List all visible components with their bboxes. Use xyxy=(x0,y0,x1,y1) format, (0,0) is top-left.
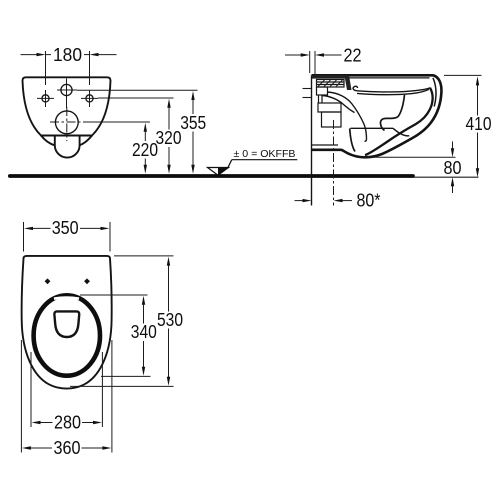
side view front rim inner edge xyxy=(433,78,436,107)
dimension 22 xyxy=(285,45,362,74)
seat ring (thick) xyxy=(34,295,100,375)
svg-text:350: 350 xyxy=(52,218,79,238)
dimension 350 xyxy=(24,218,111,252)
svg-text:320: 320 xyxy=(156,128,182,148)
svg-text:530: 530 xyxy=(157,310,183,330)
floor level label ± 0 = OKFFB xyxy=(232,149,297,160)
extension line 530 top xyxy=(114,255,174,257)
extension line 320 (from fixing holes) xyxy=(98,97,174,99)
extension line 80 upper xyxy=(364,156,456,158)
side view flush channel double curve xyxy=(322,92,367,141)
side view weir crest xyxy=(393,128,409,136)
side view flush distributor block xyxy=(312,80,345,146)
dimension 80 (right) xyxy=(444,142,462,194)
outlet circle xyxy=(55,111,78,134)
side view inner top line xyxy=(317,77,430,79)
outlet pipe vertical axis (dash-dot) xyxy=(333,120,335,206)
side view wall back line xyxy=(311,75,313,205)
front view bowl outline xyxy=(23,77,111,157)
extension line 220 (from outlet axis) xyxy=(86,121,150,123)
side view outer profile xyxy=(312,75,442,205)
seat hinge gap (white notch) xyxy=(54,298,79,299)
dimension 220 xyxy=(132,123,158,174)
svg-text:340: 340 xyxy=(131,322,157,342)
svg-text:± 0 = OKFFB: ± 0 = OKFFB xyxy=(234,149,296,160)
extension line 360 left xyxy=(20,340,22,453)
svg-text:80*: 80* xyxy=(357,191,381,211)
side view bowl cavity front wall xyxy=(380,95,404,131)
right fixing hole crosshair xyxy=(81,90,98,107)
rim spreader hook xyxy=(353,86,357,91)
extension line 530 bottom xyxy=(70,385,174,387)
dimension 320 xyxy=(156,99,182,174)
inlet circle crosshair xyxy=(57,79,77,109)
outlet circle axis cross xyxy=(50,107,86,141)
floor line (thick) xyxy=(10,174,413,178)
extension line 280 left xyxy=(30,352,32,427)
seat hinge hole right (diamond) xyxy=(84,278,90,284)
extension line 355 (from inlet) xyxy=(77,89,198,91)
plan view body outline xyxy=(22,256,112,389)
side view hatched rim back section xyxy=(312,75,352,90)
svg-text:410: 410 xyxy=(466,114,492,134)
extension line 410 top xyxy=(444,74,482,76)
dimension 340 xyxy=(131,296,157,376)
side view sump inner left wall xyxy=(350,128,355,151)
dimension 80* (bottom of side view) xyxy=(295,191,381,211)
dimension 180 xyxy=(21,45,117,85)
left fixing hole xyxy=(42,95,49,102)
seat hinge hole left (diamond) xyxy=(45,278,51,284)
dimension 280 xyxy=(32,413,103,433)
extension line 340 top xyxy=(80,294,148,296)
left fixing hole crosshair xyxy=(37,90,54,107)
svg-text:355: 355 xyxy=(180,113,206,133)
svg-text:180: 180 xyxy=(53,45,82,65)
dimension 410 xyxy=(466,76,492,177)
svg-text:280: 280 xyxy=(54,413,81,433)
extension line 360 right xyxy=(111,340,113,453)
side view inner rim lens xyxy=(353,86,430,94)
svg-text:220: 220 xyxy=(132,140,158,160)
inlet circle xyxy=(61,84,72,95)
floor line thin right part xyxy=(413,176,479,178)
side view inner bowl arc xyxy=(365,88,433,155)
svg-text:22: 22 xyxy=(344,45,362,65)
floor level mark triangle xyxy=(208,160,232,176)
dimension 530 xyxy=(157,257,183,386)
dimension 355 xyxy=(180,91,206,174)
inner water surface outline xyxy=(54,311,79,337)
extension line 280 right xyxy=(101,352,103,427)
supply axis marks left of wall xyxy=(303,88,312,90)
extension line 340 bottom xyxy=(101,375,151,377)
dimension 360 xyxy=(22,438,112,458)
side view water line xyxy=(351,127,394,129)
right fixing hole xyxy=(86,95,93,102)
svg-text:360: 360 xyxy=(54,438,81,458)
svg-text:80: 80 xyxy=(444,158,462,178)
